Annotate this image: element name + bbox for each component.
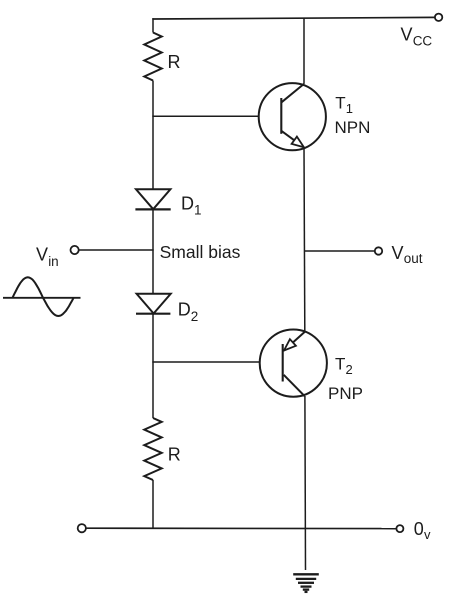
wire D2 to resistor R2 through T2 base node <box>152 314 154 418</box>
svg-text:T: T <box>335 93 345 112</box>
terminal Vin <box>71 246 79 254</box>
transistor Q1 emitter line <box>282 131 304 147</box>
diode D1 <box>136 189 170 209</box>
svg-text:R: R <box>168 444 181 464</box>
svg-text:1: 1 <box>194 202 202 217</box>
svg-text:V: V <box>392 243 404 263</box>
wire Vout <box>304 250 375 252</box>
svg-text:Small bias: Small bias <box>160 242 241 262</box>
source sine symbol axis <box>3 297 81 299</box>
wire T1 base <box>152 115 280 117</box>
svg-text:v: v <box>424 527 431 542</box>
svg-text:in: in <box>48 254 59 269</box>
svg-text:V: V <box>36 244 48 264</box>
transistor Q1 base bar <box>280 98 282 134</box>
svg-text:0: 0 <box>414 519 424 539</box>
terminal Vcc <box>435 14 442 21</box>
transistor Q1 collector line <box>282 84 305 102</box>
svg-text:1: 1 <box>346 101 353 116</box>
svg-text:2: 2 <box>346 362 353 377</box>
transistor Q1 emitter arrow <box>292 137 304 148</box>
node Vcc label <box>401 25 433 49</box>
transistor Q2 collector line <box>284 375 305 396</box>
node Vin label <box>36 244 59 269</box>
ground <box>293 574 319 592</box>
transistor Q2 base bar <box>282 344 284 382</box>
svg-text:R: R <box>168 52 181 72</box>
terminal Vout <box>375 247 382 254</box>
svg-text:D: D <box>181 194 194 214</box>
svg-text:NPN: NPN <box>335 118 371 137</box>
node Vout label <box>392 243 423 266</box>
label NPN <box>335 118 371 137</box>
transistor Q2 T2 circle <box>260 330 327 397</box>
wire T2 collector to bottom rail and ground stem <box>304 396 307 570</box>
transistor Q1 T1 circle <box>259 83 326 150</box>
resistor R1 <box>144 33 161 81</box>
svg-text:2: 2 <box>191 309 199 324</box>
wire D1 to D2 through Vin node <box>152 209 154 293</box>
diode D2 <box>137 294 171 314</box>
svg-text:PNP: PNP <box>328 384 363 403</box>
source sine wave <box>13 277 74 316</box>
resistor R2 <box>144 418 161 480</box>
wire left vertical R1 to diode D1 (through base node) <box>152 81 154 190</box>
wire Vin to left vertical <box>79 249 154 251</box>
label T2 <box>335 354 353 377</box>
wire R2 to bottom rail <box>152 480 154 529</box>
svg-text:CC: CC <box>413 33 433 48</box>
transistor Q2 emitter arrow <box>284 339 296 350</box>
bottom rail <box>86 527 396 529</box>
wire T1 collector to top rail <box>303 18 305 84</box>
node 0v label <box>414 519 431 542</box>
svg-text:T: T <box>335 354 345 373</box>
label Small bias <box>160 242 241 262</box>
label PNP <box>328 384 363 403</box>
wire T2 base <box>152 361 281 363</box>
label T1 <box>335 93 353 116</box>
transistor Q2 emitter line <box>284 331 305 350</box>
wire left vertical from top rail to resistor R1 <box>152 18 154 32</box>
svg-text:out: out <box>404 251 423 266</box>
wire top rail <box>152 17 435 19</box>
svg-text:D: D <box>178 299 191 319</box>
svg-text:V: V <box>401 25 413 45</box>
wire T1 emitter to T2 emitter (output node) <box>303 147 306 331</box>
terminal 0v <box>396 525 403 532</box>
terminal bottom left <box>78 524 86 532</box>
